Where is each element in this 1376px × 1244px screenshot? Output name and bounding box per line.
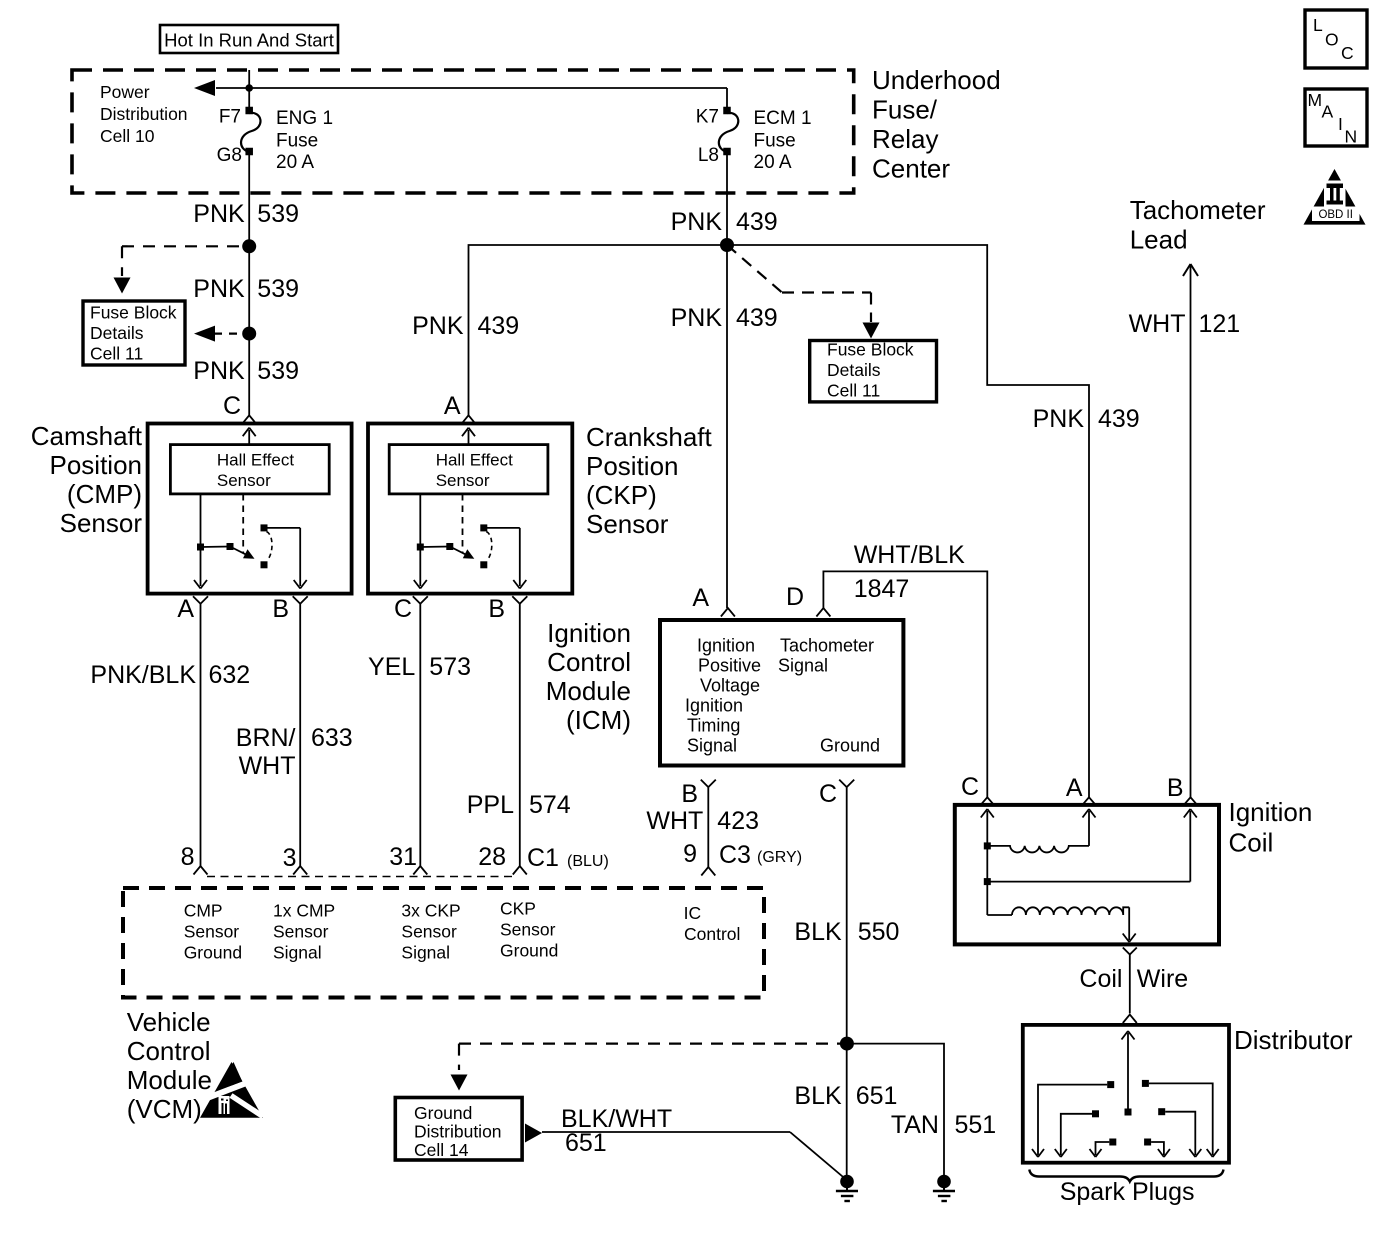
- ground symbol right: [937, 1175, 951, 1189]
- svg-text:ECM 1: ECM 1: [754, 108, 812, 129]
- svg-text:Relay: Relay: [872, 124, 938, 154]
- svg-text:20 A: 20 A: [276, 152, 314, 173]
- svg-text:Ground: Ground: [184, 943, 242, 963]
- svg-text:WHT: WHT: [1129, 310, 1186, 338]
- node junction on PNK 539: [242, 239, 256, 253]
- brace spark plugs: [1029, 1170, 1223, 1182]
- svg-text:PNK: PNK: [671, 208, 723, 236]
- icon OBD II triangle: [1304, 169, 1366, 225]
- svg-text:550: 550: [858, 918, 900, 946]
- svg-text:3x CKP: 3x CKP: [401, 901, 460, 921]
- svg-text:Center: Center: [872, 154, 950, 184]
- svg-text:Module: Module: [546, 676, 631, 706]
- svg-text:439: 439: [736, 304, 778, 332]
- svg-text:574: 574: [529, 791, 571, 819]
- svg-text:Cell 10: Cell 10: [100, 126, 155, 146]
- svg-text:Distribution: Distribution: [414, 1122, 502, 1142]
- svg-text:Fuse: Fuse: [276, 131, 318, 152]
- arrow tachometer lead up: [1183, 264, 1191, 276]
- svg-text:Ignition: Ignition: [685, 696, 743, 716]
- coil internal B lead: [984, 878, 991, 885]
- svg-text:Signal: Signal: [687, 736, 737, 756]
- svg-text:C3: C3: [719, 841, 751, 869]
- wire BLK 550 from ICM C to ground: [846, 787, 848, 1180]
- svg-text:Lead: Lead: [1130, 225, 1188, 255]
- wire dashed to ground distribution: [459, 1042, 841, 1044]
- wire dashed branch to Fuse Block Details Cell 11: [122, 245, 240, 247]
- wire dashed branch to Fuse Block Details Cell 11 right: [727, 245, 782, 293]
- svg-text:Cell 14: Cell 14: [414, 1140, 469, 1160]
- svg-text:C: C: [819, 780, 837, 808]
- wire YEL 573 CKP C to VCM pin 31: [419, 604, 421, 866]
- arrow into Power Distribution: [194, 80, 215, 96]
- svg-text:Ground: Ground: [820, 736, 880, 756]
- svg-text:YEL: YEL: [368, 653, 415, 681]
- svg-text:BLK: BLK: [794, 918, 842, 946]
- wire drop to fuse K7: [726, 88, 728, 109]
- node PNK 439 junction: [720, 238, 734, 252]
- spark plug wire 3: [1061, 1114, 1092, 1155]
- dashed box Vehicle Control Module VCM: [123, 888, 764, 998]
- svg-text:Signal: Signal: [401, 943, 450, 963]
- wire PNK/BLK 632 CMP A to VCM pin 8: [200, 604, 202, 866]
- svg-text:551: 551: [955, 1111, 997, 1139]
- svg-text:PNK: PNK: [193, 200, 245, 228]
- svg-text:L8: L8: [698, 145, 719, 166]
- svg-text:121: 121: [1199, 310, 1241, 338]
- spark plug wire 1: [1038, 1085, 1107, 1155]
- svg-text:Sensor: Sensor: [500, 920, 556, 940]
- svg-text:A: A: [692, 584, 709, 612]
- ground symbol left: [840, 1175, 854, 1189]
- svg-text:Crankshaft: Crankshaft: [586, 422, 712, 452]
- svg-text:Cell 11: Cell 11: [827, 381, 880, 401]
- svg-text:Hall Effect: Hall Effect: [217, 451, 294, 470]
- svg-text:Camshaft: Camshaft: [31, 421, 143, 451]
- svg-text:1847: 1847: [854, 575, 910, 603]
- svg-text:439: 439: [1098, 405, 1140, 433]
- icon ESD warning symbol: [200, 1062, 263, 1118]
- svg-text:OBD II: OBD II: [1318, 209, 1353, 221]
- svg-text:Ignition: Ignition: [1229, 797, 1313, 827]
- svg-text:PNK: PNK: [412, 312, 464, 340]
- svg-text:Position: Position: [586, 451, 679, 481]
- svg-text:PNK/BLK: PNK/BLK: [90, 661, 196, 689]
- svg-text:WHT: WHT: [646, 807, 703, 835]
- pin 9 of VCM connector C3 (GRY): [701, 867, 715, 876]
- svg-text:B: B: [1167, 774, 1184, 802]
- svg-text:BRN/: BRN/: [236, 724, 296, 752]
- svg-text:28: 28: [478, 843, 506, 871]
- wire TAN 551 to ground: [847, 1044, 944, 1180]
- svg-text:Fuse/: Fuse/: [872, 95, 938, 125]
- svg-text:PNK: PNK: [671, 304, 723, 332]
- svg-text:PPL: PPL: [467, 791, 514, 819]
- wire PNK 439 branch to CKP sensor pin A: [469, 245, 728, 415]
- svg-text:1x CMP: 1x CMP: [273, 901, 335, 921]
- label box Fuse Block Details Cell 11 right: [810, 341, 937, 402]
- svg-text:B: B: [488, 595, 505, 623]
- fuse ENG 1 20 A (F7/G8): [245, 107, 253, 115]
- svg-text:Coil: Coil: [1229, 828, 1274, 858]
- arrow out of Ground Distribution: [525, 1124, 542, 1143]
- svg-text:651: 651: [856, 1082, 898, 1110]
- svg-text:Details: Details: [90, 323, 144, 343]
- svg-text:Cell 11: Cell 11: [90, 344, 143, 364]
- svg-text:Wire: Wire: [1137, 965, 1188, 993]
- svg-text:D: D: [786, 583, 804, 611]
- spark plug wire 4: [1165, 1112, 1195, 1155]
- svg-text:ENG 1: ENG 1: [276, 108, 333, 129]
- svg-text:Fuse Block: Fuse Block: [827, 340, 914, 360]
- svg-text:Details: Details: [827, 360, 881, 380]
- wire PNK 539 from fuse G8 to CMP sensor pin C: [248, 152, 250, 415]
- svg-text:Spark Plugs: Spark Plugs: [1060, 1178, 1195, 1206]
- label box Ground Distribution Cell 14: [395, 1098, 522, 1161]
- svg-text:Control: Control: [127, 1036, 211, 1066]
- svg-text:Sensor: Sensor: [273, 922, 329, 942]
- wire PNK 439 branch to ignition coil pin A: [727, 245, 1089, 798]
- svg-text:423: 423: [717, 807, 759, 835]
- svg-text:WHT/BLK: WHT/BLK: [854, 541, 965, 569]
- svg-text:CKP: CKP: [500, 899, 536, 919]
- svg-text:20 A: 20 A: [754, 152, 792, 173]
- svg-text:439: 439: [736, 208, 778, 236]
- svg-text:Ground: Ground: [414, 1103, 472, 1123]
- svg-text:632: 632: [209, 661, 251, 689]
- dashed box Underhood Fuse/Relay Center: [72, 70, 854, 193]
- coil tower connector: [1123, 948, 1130, 955]
- svg-text:(GRY): (GRY): [757, 849, 802, 866]
- svg-text:(ICM): (ICM): [566, 705, 631, 735]
- svg-text:633: 633: [311, 724, 353, 752]
- svg-text:Control: Control: [684, 924, 740, 944]
- svg-text:Tachometer: Tachometer: [780, 636, 874, 656]
- node junction to fuse block details: [242, 327, 256, 341]
- component ICM box: [660, 620, 903, 766]
- icon LOC box: [1305, 10, 1367, 68]
- icon MAIN box: [1305, 89, 1367, 146]
- arrow into Fuse Block Details: [114, 278, 131, 294]
- svg-text:Hall Effect: Hall Effect: [436, 451, 513, 470]
- svg-text:Coil: Coil: [1079, 965, 1122, 993]
- node feed junction: [245, 84, 253, 92]
- node junction BLK 550/651: [840, 1037, 854, 1051]
- coil internal A lead: [1088, 811, 1090, 846]
- svg-text:K7: K7: [696, 107, 719, 128]
- svg-text:F7: F7: [219, 107, 241, 128]
- svg-text:Position: Position: [50, 450, 143, 480]
- svg-text:8: 8: [181, 843, 195, 871]
- component distributor box: [1023, 1025, 1229, 1163]
- svg-text:Module: Module: [127, 1065, 212, 1095]
- svg-text:Sensor: Sensor: [184, 922, 240, 942]
- svg-text:Signal: Signal: [778, 656, 828, 676]
- svg-text:Power: Power: [100, 82, 150, 102]
- component ignition coil box: [955, 805, 1219, 945]
- svg-text:573: 573: [429, 653, 471, 681]
- svg-text:A: A: [1066, 774, 1083, 802]
- svg-text:A: A: [1322, 102, 1334, 122]
- svg-text:B: B: [681, 780, 698, 808]
- svg-text:Tachometer: Tachometer: [1130, 195, 1266, 225]
- svg-text:Positive: Positive: [698, 656, 761, 676]
- svg-text:C: C: [223, 392, 241, 420]
- svg-text:(CMP): (CMP): [67, 479, 142, 509]
- wire WHT 121 tachometer lead: [1190, 264, 1192, 798]
- svg-text:IC: IC: [684, 903, 702, 923]
- svg-text:439: 439: [478, 312, 520, 340]
- wire BLK/WHT 651 to ground: [542, 1131, 790, 1133]
- spark plug wire 6: [1151, 1142, 1164, 1155]
- svg-text:Hot In Run And Start: Hot In Run And Start: [164, 30, 334, 51]
- svg-text:539: 539: [257, 200, 299, 228]
- svg-text:(BLU): (BLU): [567, 853, 609, 870]
- svg-text:Signal: Signal: [273, 943, 322, 963]
- wire PPL 574 CKP B to VCM pin 28: [519, 604, 521, 866]
- svg-text:Sensor: Sensor: [217, 471, 271, 490]
- svg-text:C: C: [961, 773, 979, 801]
- wire WHT/BLK 1847 from ICM D to coil C: [823, 571, 987, 797]
- svg-text:Sensor: Sensor: [60, 508, 143, 538]
- component CKP sensor with Hall Effect Sensor: [368, 424, 572, 594]
- svg-text:B: B: [272, 595, 289, 623]
- svg-text:PNK: PNK: [1033, 405, 1085, 433]
- svg-text:Ignition: Ignition: [697, 636, 755, 656]
- wire hot feed vertical into fuse F7: [248, 70, 250, 109]
- svg-text:M: M: [1308, 90, 1323, 110]
- svg-text:G8: G8: [217, 145, 242, 166]
- svg-text:Timing: Timing: [687, 716, 740, 736]
- svg-text:WHT: WHT: [239, 752, 296, 780]
- arrow into Fuse Block Details right: [863, 323, 880, 339]
- fuse ECM 1 20 A (K7/L8): [723, 107, 731, 115]
- svg-text:Vehicle: Vehicle: [127, 1007, 211, 1037]
- spark plug wire 2: [1149, 1083, 1213, 1155]
- svg-text:Control: Control: [547, 647, 631, 677]
- svg-text:31: 31: [389, 843, 417, 871]
- svg-text:Ground: Ground: [500, 941, 558, 961]
- svg-text:(CKP): (CKP): [586, 480, 657, 510]
- svg-text:A: A: [177, 595, 194, 623]
- svg-text:539: 539: [257, 275, 299, 303]
- svg-text:Sensor: Sensor: [436, 471, 490, 490]
- svg-text:O: O: [1325, 30, 1339, 50]
- distributor cap contacts: [1107, 1081, 1114, 1088]
- svg-text:C: C: [1341, 43, 1354, 63]
- svg-text:Distribution: Distribution: [100, 104, 188, 124]
- label box Fuse Block Details Cell 11: [83, 301, 185, 365]
- spark plug wire 5: [1096, 1142, 1110, 1155]
- distributor rotor feed: [1122, 1031, 1129, 1040]
- svg-text:9: 9: [683, 840, 697, 868]
- svg-text:PNK: PNK: [193, 357, 245, 385]
- svg-text:C1: C1: [527, 844, 559, 872]
- svg-text:Sensor: Sensor: [586, 509, 669, 539]
- svg-text:539: 539: [257, 357, 299, 385]
- svg-text:Fuse Block: Fuse Block: [90, 303, 177, 323]
- svg-text:N: N: [1345, 127, 1358, 147]
- distributor rotor contact: [1125, 1109, 1132, 1116]
- svg-text:Voltage: Voltage: [700, 676, 760, 696]
- coil internal C lead: [981, 809, 988, 818]
- svg-text:(VCM): (VCM): [127, 1094, 202, 1124]
- wire BRN/WHT 633 CMP B to VCM pin 3: [299, 604, 301, 866]
- label box Hot In Run And Start: [160, 25, 338, 53]
- coil primary winding: [984, 842, 991, 849]
- svg-text:Ignition: Ignition: [547, 618, 631, 648]
- wire bus to ECM1 fuse: [216, 87, 727, 89]
- svg-text:Fuse: Fuse: [754, 131, 796, 152]
- svg-text:Sensor: Sensor: [401, 922, 457, 942]
- svg-text:Underhood: Underhood: [872, 65, 1001, 95]
- wire coil wire to distributor: [1129, 955, 1131, 1014]
- svg-text:Distributor: Distributor: [1234, 1025, 1353, 1055]
- svg-text:BLK: BLK: [794, 1082, 842, 1110]
- wire PNK 439 from fuse L8 to ICM pin A: [726, 152, 728, 608]
- svg-text:CMP: CMP: [184, 901, 223, 921]
- svg-text:I: I: [1338, 114, 1343, 134]
- svg-text:C: C: [394, 595, 412, 623]
- svg-text:L: L: [1313, 15, 1323, 35]
- svg-text:651: 651: [565, 1129, 607, 1157]
- component CMP sensor with Hall Effect Sensor: [148, 424, 352, 594]
- svg-text:TAN: TAN: [891, 1111, 939, 1139]
- svg-text:3: 3: [283, 844, 297, 872]
- wire dashed stub with arrow to fuse block: [214, 333, 242, 335]
- coil secondary winding: [987, 914, 1012, 916]
- arrow into Ground Distribution: [451, 1075, 468, 1091]
- svg-text:PNK: PNK: [193, 275, 245, 303]
- svg-text:A: A: [444, 392, 461, 420]
- wire WHT 423 ICM B to VCM pin 9: [707, 787, 709, 867]
- connector C1 (BLU): [207, 876, 513, 878]
